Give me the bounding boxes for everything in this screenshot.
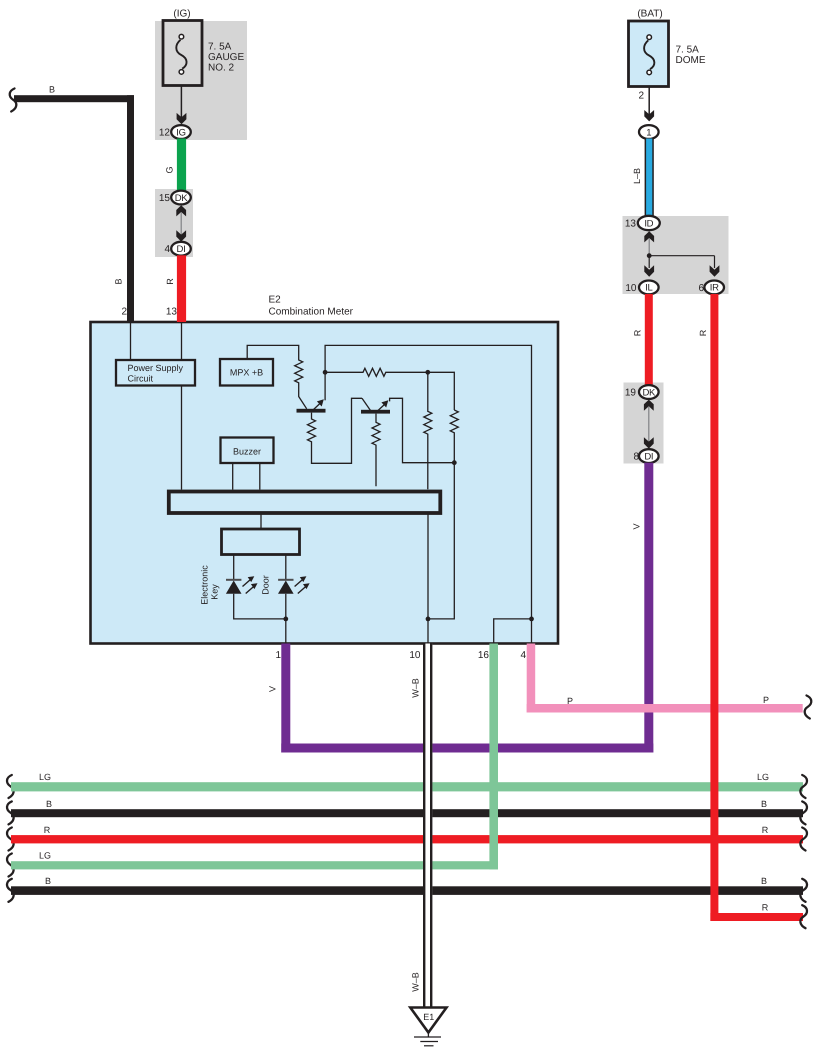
label E2 / Combination Meter [269,295,354,318]
svg-text:MPX +B: MPX +B [230,368,263,378]
svg-text:V: V [268,686,278,692]
svg-text:LG: LG [757,772,769,782]
connector 1 [639,125,659,139]
LED D2 door [261,555,310,595]
svg-text:P: P [567,696,573,706]
connector 8 DI [633,449,658,463]
svg-text:2: 2 [121,307,127,318]
svg-text:1: 1 [275,650,281,661]
svg-text:W–B: W–B [411,972,421,992]
wire bus to driver box [260,514,262,528]
buzzer box [221,438,274,464]
junction arrows below ID [644,231,654,256]
svg-text:Electronic: Electronic [200,565,210,605]
svg-text:L–B: L–B [632,168,642,184]
wire bus to pin10 node [427,514,429,619]
svg-text:Power Supply: Power Supply [128,363,184,373]
svg-text:4: 4 [164,244,170,255]
wire L-B blue [632,139,654,217]
main bus bar [169,492,441,514]
bottom bus row 2 B [7,799,807,825]
svg-text:15: 15 [159,193,171,204]
wire G green [165,139,187,192]
svg-text:V: V [632,523,642,529]
combination meter box E2 [91,322,559,644]
wire R red to pin 13 [165,255,186,322]
svg-text:B: B [761,876,767,886]
svg-text:13: 13 [166,307,178,318]
svg-text:7. 5A: 7. 5A [208,42,232,53]
svg-text:G: G [165,166,175,173]
wire LG green from pin 16 [478,644,498,870]
wire V purple from pin 1 [268,644,654,753]
svg-text:(IG): (IG) [173,9,190,20]
svg-text:16: 16 [478,650,490,661]
wire P pink from pin 4 [520,644,811,719]
wire MPX+B to top rail [247,345,299,359]
svg-text:R: R [633,329,643,336]
connector 12 IG [159,125,191,139]
wire node C down to pin10 row [428,463,454,619]
shield gray box DK/DI right [624,383,664,464]
transistor Q1 [297,372,326,412]
svg-text:4: 4 [520,650,526,661]
node B junction [425,370,430,375]
svg-text:R: R [165,278,175,285]
svg-text:IG: IG [176,127,185,138]
bottom bus row 1 LG [7,772,807,798]
connector 4 DI [164,242,190,256]
svg-text:Combination Meter: Combination Meter [269,307,354,318]
wire B black vertical to pin 2 [114,95,135,322]
bottom bus row 3 R [7,825,807,851]
LED D1 electronic key [200,555,286,619]
ground E1 [410,1008,446,1046]
connector 19 DK [625,385,659,399]
shield gray box ID/IL/IR [623,216,729,294]
bottom bus row 4 LG [7,851,498,877]
svg-text:10: 10 [625,283,637,294]
wire pin2 to power supply [130,322,132,360]
resistor R5 under Q1 and link to Q2 [308,398,363,463]
svg-text:B: B [761,799,767,809]
svg-text:IR: IR [710,283,719,294]
wire pin13 through power supply to main bus [181,322,183,490]
svg-text:6: 6 [698,283,704,294]
fuse IG 7.5A GAUGE NO.2 [163,9,244,86]
node E junction pin4 drop [494,617,534,644]
wires buzzer to main bus [233,463,260,490]
resistor R3 vertical mid [424,372,432,489]
wire Q2 emitter to node C [390,398,455,462]
svg-text:2: 2 [638,91,644,102]
svg-text:DOME: DOME [676,55,706,66]
svg-text:E2: E2 [269,295,282,306]
svg-text:7. 5A: 7. 5A [676,45,700,56]
svg-text:LG: LG [39,772,51,782]
svg-text:B: B [114,278,124,284]
wire R red from IL to DK [633,294,653,386]
svg-text:GAUGE: GAUGE [208,52,244,63]
svg-text:B: B [46,799,52,809]
LED driver box [222,529,300,555]
svg-text:NO. 2: NO. 2 [208,63,235,74]
svg-text:1: 1 [646,127,651,138]
svg-text:13: 13 [625,219,637,230]
node split IL/IR [644,253,719,276]
svg-text:10: 10 [409,650,421,661]
node A junction [323,370,328,375]
svg-text:R: R [44,825,51,835]
bottom bus row 5 B [7,876,807,902]
svg-text:IL: IL [645,283,652,294]
svg-text:B: B [49,85,55,95]
power supply circuit box [116,360,195,386]
svg-text:R: R [698,329,708,336]
connector 10 IL [625,281,658,295]
svg-text:Circuit: Circuit [128,374,154,384]
shield gray box IG fuse area [155,21,247,140]
svg-text:W–B: W–B [411,678,421,698]
svg-text:Key: Key [210,584,220,600]
wire node B to R4 [428,372,455,410]
svg-text:ID: ID [644,218,653,229]
svg-text:DK: DK [175,193,189,204]
resistor R2 horizontal [325,368,427,376]
shield gray box DK/DI left [155,189,193,257]
fuse BAT 7.5A DOME [629,9,706,87]
node D junction pin10 [426,617,431,644]
node F junction LEDs [283,594,288,644]
svg-text:B: B [45,876,51,886]
wire W-B double line from pin 10 to ground [409,644,432,1009]
svg-text:8: 8 [633,452,639,463]
svg-text:12: 12 [159,128,171,139]
wire from fuse BAT to connector 1 [638,87,654,122]
svg-text:DI: DI [644,451,653,462]
MPX +B box [220,359,273,386]
resistor R6 under Q2 [372,414,380,487]
resistor R1 vertical under MPX rail [295,358,307,409]
junction arrows between DK and DI right [644,400,654,449]
transistor Q2 [361,398,390,413]
svg-text:R: R [762,825,769,835]
svg-text:R: R [762,902,769,912]
top rail to pin 4 drop [325,345,531,619]
svg-text:(BAT): (BAT) [637,9,662,20]
connector 6 IR [698,281,724,295]
svg-text:19: 19 [625,388,637,399]
junction arrows between DK and DI [176,205,186,241]
svg-text:P: P [763,695,769,705]
wire V purple right vertical [632,463,654,753]
connector 13 ID [625,216,660,230]
svg-text:LG: LG [39,851,51,861]
svg-text:E1: E1 [423,1012,434,1022]
svg-text:DK: DK [642,387,656,398]
wire from fuse IG to connector [177,85,187,124]
wire B black horizontal with break [10,85,134,112]
svg-text:Buzzer: Buzzer [233,447,261,457]
svg-text:DI: DI [177,244,186,255]
svg-text:Door: Door [261,575,271,595]
wire R red from IR down to row 6 [698,294,807,928]
node C junction [452,460,457,465]
resistor R4 vertical right [450,410,458,463]
connector 15 DK [159,191,191,205]
